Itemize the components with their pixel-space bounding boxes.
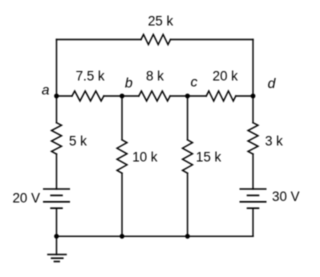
wire bottom rail xyxy=(57,235,254,237)
node d xyxy=(251,94,256,99)
wire left vertical upper (top rail to node a) xyxy=(56,40,58,97)
wire battery 30V to bottom rail xyxy=(252,208,254,236)
resistor 20 k xyxy=(206,91,236,101)
svg-text:d: d xyxy=(268,75,277,91)
svg-text:7.5 k: 7.5 k xyxy=(76,68,105,83)
resistor 7.5 k xyxy=(72,91,104,101)
node bottom-left junction xyxy=(54,234,59,239)
resistor 3 k xyxy=(248,123,258,154)
node a xyxy=(54,94,59,99)
svg-text:30 V: 30 V xyxy=(272,189,300,204)
node b xyxy=(120,94,125,99)
wire 15k to bottom rail xyxy=(187,173,189,236)
wire node d to 3k xyxy=(252,96,254,123)
svg-text:15 k: 15 k xyxy=(196,150,222,165)
battery 20V xyxy=(43,189,70,208)
wire 3k to battery 30V xyxy=(252,154,254,189)
wire right vertical upper (top rail to node d) xyxy=(252,40,254,97)
node bottom b junction xyxy=(120,234,125,239)
svg-text:20 k: 20 k xyxy=(213,68,239,83)
svg-text:10 k: 10 k xyxy=(132,150,158,165)
resistor 5 k xyxy=(52,123,62,154)
battery 30V xyxy=(240,189,267,208)
wire node b to 10k xyxy=(121,96,123,140)
ground xyxy=(47,236,67,261)
wire 20k to node d xyxy=(236,95,253,97)
wire 5k to battery 20V xyxy=(56,154,58,189)
svg-text:c: c xyxy=(191,74,198,90)
resistor 10 k xyxy=(117,140,127,173)
wire 7.5k to node b xyxy=(104,95,139,97)
wire battery 20V to bottom rail xyxy=(56,208,58,236)
node c xyxy=(185,94,190,99)
svg-text:20 V: 20 V xyxy=(12,191,40,206)
svg-text:8 k: 8 k xyxy=(146,68,164,83)
wire top rail right segment xyxy=(171,39,254,41)
wire middle rail a to 7.5k xyxy=(57,95,73,97)
wire 10k to bottom rail xyxy=(121,173,123,236)
resistor 8 k xyxy=(139,91,170,101)
resistor 25 k (top) xyxy=(141,35,171,45)
svg-text:5 k: 5 k xyxy=(69,134,87,149)
node bottom c junction xyxy=(185,234,190,239)
wire top rail left segment xyxy=(57,39,142,41)
svg-text:25 k: 25 k xyxy=(148,14,174,29)
wire node c to 15k xyxy=(187,96,189,140)
wire node a to 5k resistor xyxy=(56,96,58,123)
svg-text:a: a xyxy=(42,82,50,98)
wire 8k to node c xyxy=(170,95,206,97)
svg-text:b: b xyxy=(125,74,133,90)
resistor 15 k xyxy=(183,140,193,173)
svg-text:3 k: 3 k xyxy=(265,134,283,149)
